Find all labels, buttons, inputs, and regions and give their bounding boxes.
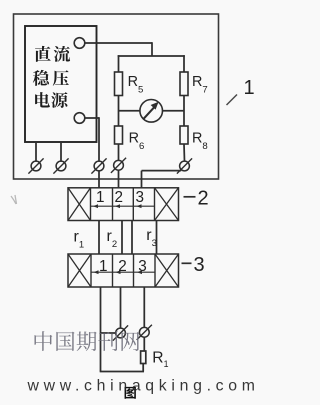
terminal B (unused) (53, 158, 68, 173)
svg-text:3: 3 (136, 189, 145, 206)
block 2 crossed box right (155, 188, 179, 221)
caption fragment: Fig (Chinese) (125, 387, 136, 399)
lead wire 3b (156, 221, 158, 255)
block 2 crossed box left (68, 188, 91, 221)
resistor R7 (180, 72, 188, 96)
terminal F (Rt end B) (113, 325, 128, 340)
thermal resistor Rt (141, 351, 146, 364)
terminal G (Rt end A) (137, 325, 152, 340)
wire: terminal D down to block 2 pin 2 (118, 170, 120, 188)
wire: galvanometer rail left (119, 110, 141, 112)
block 3 crossed box right (155, 254, 179, 287)
wire: lead 1 down to loop (100, 287, 102, 372)
wire: Rt bottom loop (142, 364, 144, 372)
svg-text:3: 3 (138, 258, 147, 275)
wire: supply bottom terminal across and down (85, 117, 99, 119)
svg-text:1: 1 (96, 189, 105, 206)
wire: below R8 (183, 144, 186, 161)
wire: terminal E left and down to block 2 pin 3 (142, 170, 182, 172)
resistor R5 (115, 72, 123, 96)
terminal E (bridge right) (177, 158, 192, 173)
wire: right arm middle (183, 96, 185, 127)
svg-text:2: 2 (115, 189, 124, 206)
faint print remnant at left edge (11, 195, 17, 204)
terminal block 3 (68, 254, 179, 287)
instrument box 1 (14, 14, 219, 179)
label: DC regulated power supply (Chinese) (35, 46, 51, 62)
svg-text:1: 1 (99, 258, 108, 275)
block 3 contact arrows (94, 270, 99, 274)
leader line to label 1 (227, 95, 238, 106)
resistor R6 (115, 126, 123, 144)
resistor R8 (180, 126, 188, 144)
unused supply terminal stub b (60, 142, 62, 161)
power supply terminal (-) (74, 113, 85, 124)
block 2 contact arrows (93, 204, 98, 208)
svg-text:2: 2 (118, 258, 127, 275)
lead wire 3a (131, 221, 133, 255)
terminal D (bridge left) (111, 158, 126, 173)
wire: left arm upper (118, 55, 120, 72)
leader dash to label 3 (182, 262, 192, 264)
wire: below R6 (118, 144, 120, 160)
lead wire 2 (121, 221, 123, 255)
galvanometer G (140, 100, 163, 123)
terminal C (supply -) (91, 158, 106, 173)
svg-text:2: 2 (198, 188, 209, 210)
block 2 contact rail (91, 205, 155, 207)
DC regulated power supply box (25, 26, 97, 142)
block 3 contact rail (91, 271, 155, 273)
wire: left arm middle (118, 96, 120, 127)
wire: junction to terminal F (101, 332, 117, 334)
wire: lead 2 down (120, 287, 122, 328)
terminal A (unused) (28, 158, 43, 173)
wire: bridge top rail (118, 55, 185, 57)
wire: supply top terminal to bridge top (85, 42, 152, 44)
lead wire 1 (98, 221, 100, 255)
unused supply terminal stub a (35, 142, 37, 161)
wire: right arm upper (183, 55, 185, 72)
wire: terminal G to Rt (143, 337, 145, 351)
watermark: China Journal Net (gray Chinese) (34, 331, 139, 351)
power supply terminal (+) (74, 38, 85, 49)
svg-text:www.chinaqking.com: www.chinaqking.com (27, 378, 260, 395)
leader dash to label 2 (184, 196, 196, 198)
wire: lead 3 down (143, 287, 145, 328)
wire: terminal C down to block 2 pin 1 (98, 171, 100, 188)
terminal block 2 (68, 188, 179, 221)
svg-text:1: 1 (244, 77, 255, 99)
block 3 crossed box left (68, 254, 91, 287)
wire: galvanometer rail right (162, 110, 184, 112)
svg-text:3: 3 (194, 254, 205, 276)
